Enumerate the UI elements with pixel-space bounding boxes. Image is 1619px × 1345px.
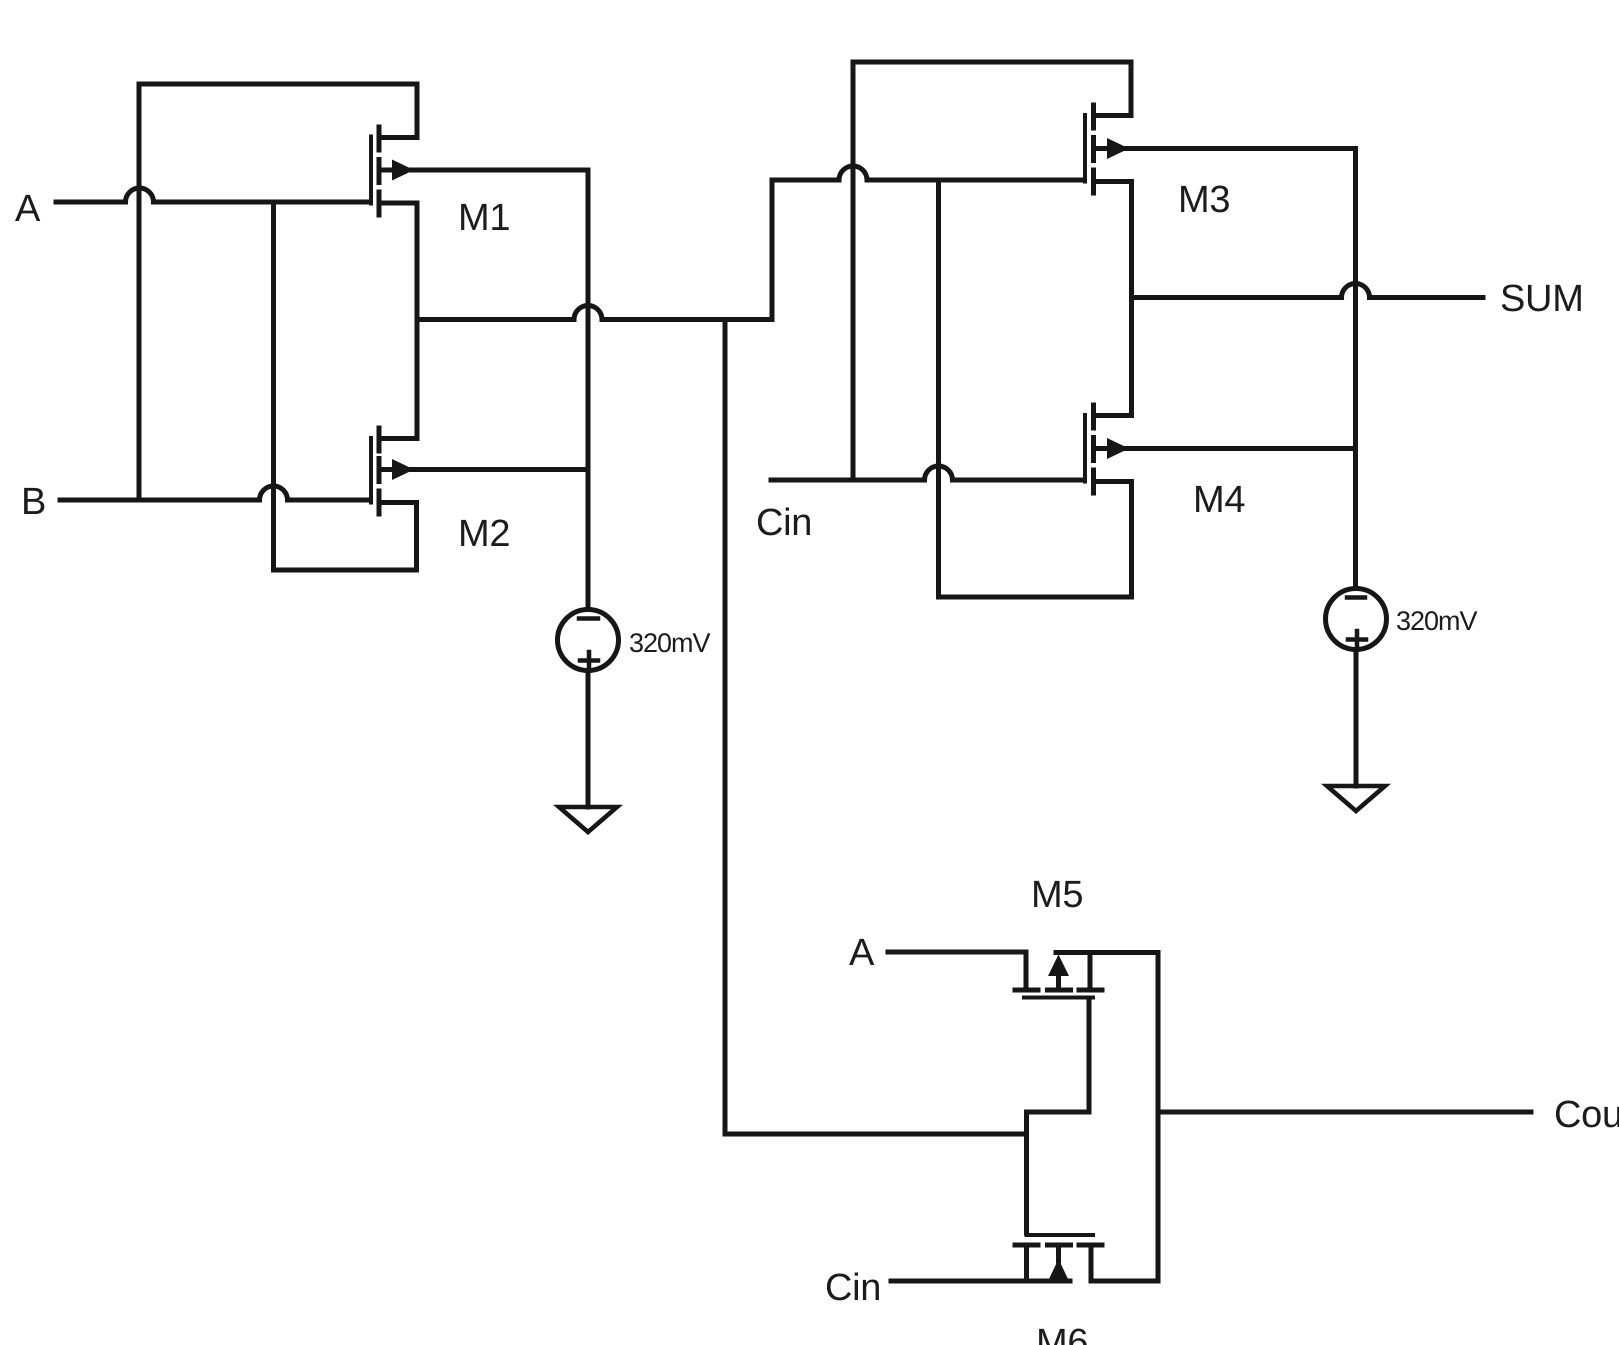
svg-text:M3: M3	[1178, 179, 1230, 221]
transistor M2 gate bar	[369, 438, 373, 503]
svg-text:SUM: SUM	[1500, 278, 1584, 320]
transistor M6 bulk arrowhead	[1049, 1259, 1069, 1280]
V1 plus sign	[580, 652, 598, 669]
svg-text:320mV: 320mV	[629, 628, 711, 658]
transistor M6 drain lead to output rail	[1091, 1247, 1158, 1281]
ground symbol left	[559, 807, 617, 832]
transistor M4 source lead	[1096, 479, 1132, 484]
svg-text:B: B	[21, 481, 46, 523]
wire A input with hop over left vertical	[56, 188, 368, 202]
transistor M2 bulk arrowhead	[392, 459, 414, 480]
transistor M4 bulk lead with arrow to 320mV rail	[1096, 446, 1356, 451]
svg-text:Cin: Cin	[756, 502, 812, 544]
ground symbol right	[1327, 786, 1385, 811]
voltage source V1 320mV circle	[558, 610, 619, 671]
wire Cin input with hop over M4-source branch	[771, 466, 1081, 480]
svg-text:A: A	[15, 188, 41, 230]
wire SUM output with hop over 320mV rail	[1132, 284, 1484, 298]
transistor M2 channel segments	[377, 428, 382, 514]
V2 minus sign	[1347, 595, 1365, 600]
transistor M5 gate bar	[1024, 996, 1093, 1000]
wire Cout right rail vertical	[1156, 953, 1161, 1282]
wire top-left rectangle (B to M1 drain)	[139, 84, 417, 500]
transistor M2 bulk lead with arrow to 320mV rail	[381, 467, 588, 472]
transistor M6 gate bar	[1027, 1233, 1094, 1237]
wire M5 gate to M6 gate	[1027, 999, 1090, 1233]
V2 plus sign	[1348, 631, 1366, 648]
transistor M5 bulk arrowhead	[1048, 955, 1069, 977]
wire XOR1 output down to pass-transistor gates	[725, 320, 1026, 1135]
wire Cin to M6 source	[891, 1279, 1070, 1284]
svg-text:M1: M1	[458, 197, 510, 239]
transistor M3 drain lead	[1096, 113, 1132, 118]
transistor M5 bulk lead	[1056, 973, 1061, 988]
wire 320mV right rail vertical	[1353, 149, 1358, 587]
svg-text:Cin: Cin	[825, 1267, 881, 1309]
wire XOR1 output node with hop over 320mV rail	[417, 166, 1081, 320]
wire A to M5 source	[888, 952, 1026, 987]
svg-text:Cout: Cout	[1554, 1094, 1619, 1136]
transistor M4 channel segments	[1091, 405, 1096, 493]
wire M5 drain to output rail	[1056, 950, 1158, 955]
svg-text:M2: M2	[458, 513, 510, 555]
transistor M1 gate bar	[369, 137, 373, 204]
transistor M5 channel segments	[1015, 988, 1102, 993]
wire Cout output	[1158, 1110, 1531, 1115]
transistor M2 drain lead	[381, 436, 417, 441]
transistor M2 source lead	[381, 500, 417, 505]
wire B input with hop over A-branch vertical	[60, 486, 368, 500]
transistor M3 source lead	[1096, 179, 1132, 184]
transistor M4 bulk arrowhead	[1107, 438, 1129, 459]
transistor M5 drain lead	[1088, 953, 1093, 988]
V1 minus sign	[579, 616, 598, 621]
wire V1 to ground	[586, 673, 591, 807]
voltage source V2 320mV circle	[1326, 589, 1387, 650]
svg-text:M4: M4	[1193, 479, 1245, 521]
svg-text:M6: M6	[1036, 1322, 1088, 1345]
transistor M1 channel segments	[377, 127, 382, 215]
wire M1 source to M2 drain	[415, 203, 420, 439]
svg-text:A: A	[849, 932, 875, 974]
svg-text:M5: M5	[1031, 874, 1083, 916]
transistor M6 source lead	[1024, 1247, 1029, 1281]
transistor M1 source lead	[381, 201, 417, 206]
transistor M4 gate bar	[1083, 415, 1087, 482]
svg-text:320mV: 320mV	[1396, 606, 1478, 636]
transistor M3 bulk arrowhead	[1107, 138, 1129, 159]
transistor M1 bulk arrowhead	[392, 160, 414, 181]
transistor M3 gate bar	[1083, 115, 1087, 182]
transistor M6 bulk lead	[1056, 1247, 1061, 1261]
transistor M6 channel segments	[1015, 1243, 1102, 1248]
transistor M3 bulk lead with arrow to 320mV rail	[1096, 146, 1356, 151]
wire M3 source to M4 drain	[1129, 182, 1134, 416]
wire A branch down to M2 source loop	[274, 202, 417, 570]
wire top-right rectangle (Cin to M3 drain)	[853, 62, 1131, 480]
transistor M4 drain lead	[1096, 413, 1132, 418]
wire S1 branch down to M4 source loop	[939, 180, 1132, 597]
transistor M3 channel segments	[1091, 105, 1096, 193]
transistor M1 bulk lead with arrow to 320mV rail	[381, 168, 588, 173]
wire V2 to ground	[1354, 652, 1359, 786]
wire 320mV left rail vertical	[586, 170, 591, 607]
transistor M1 drain lead	[381, 135, 417, 140]
